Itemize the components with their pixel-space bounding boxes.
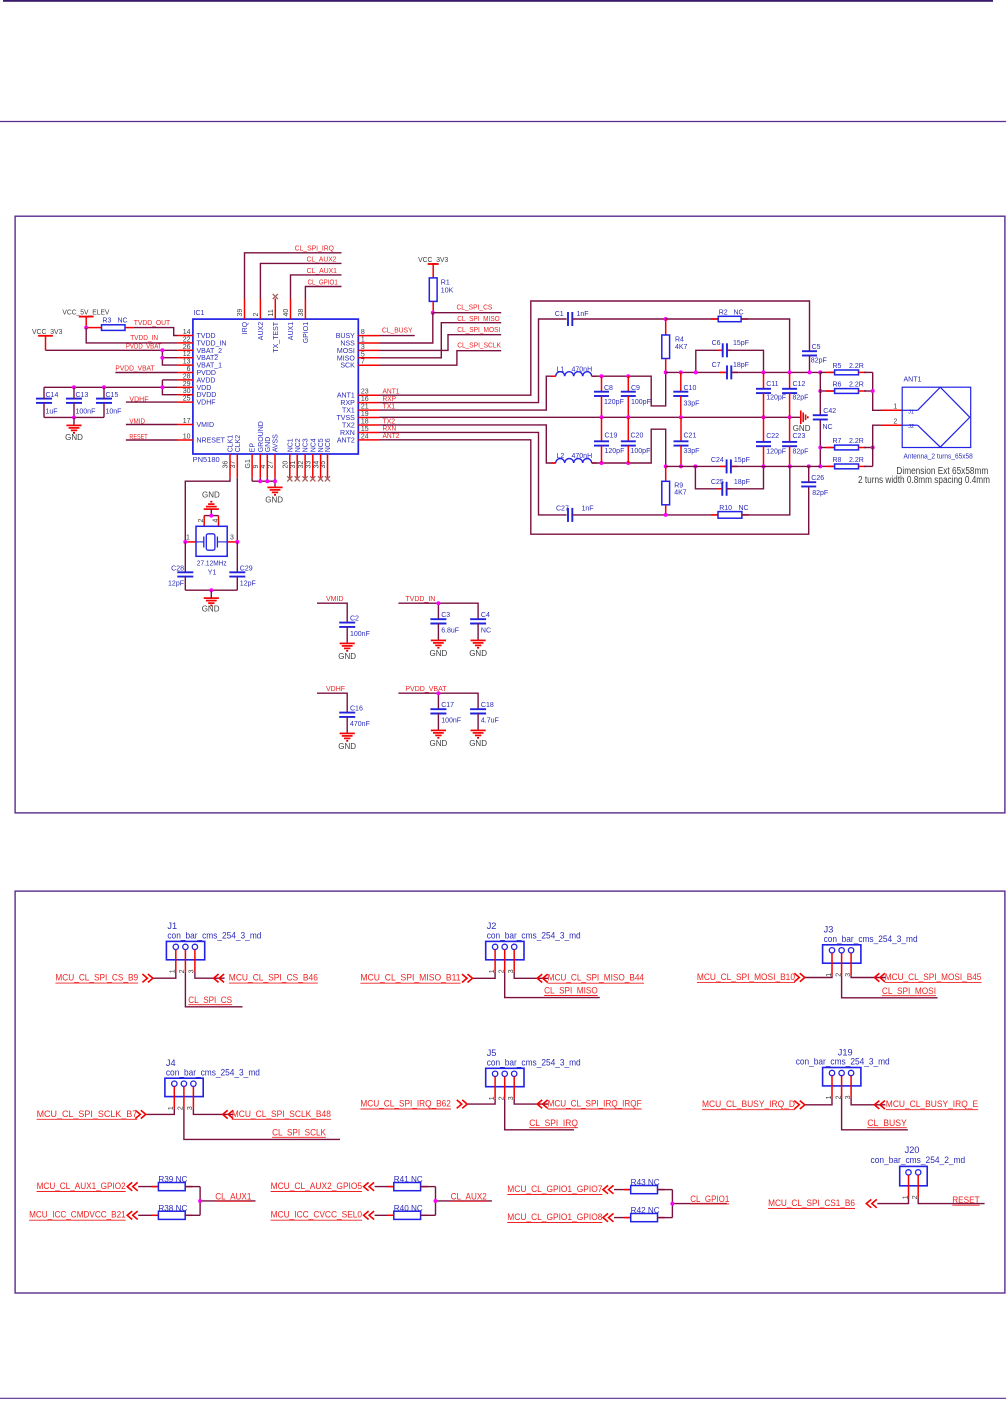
wire CL_AUX2 tie bbox=[436, 1187, 492, 1216]
svg-text:38: 38 bbox=[298, 309, 305, 317]
svg-text:NC: NC bbox=[734, 310, 744, 317]
svg-text:con_bar_cms_254_3_md: con_bar_cms_254_3_md bbox=[166, 1067, 260, 1077]
IC1 right pin stubs bbox=[358, 336, 379, 440]
capacitor C11 bbox=[756, 372, 786, 417]
capacitor C26 bbox=[801, 466, 828, 496]
svg-text:GND: GND bbox=[469, 739, 487, 748]
wire CL_SPI_MISO MISO pin 5 bbox=[380, 323, 502, 358]
svg-text:C12: C12 bbox=[793, 381, 806, 388]
svg-text:MCU_CL_SPI_SCLK_B7: MCU_CL_SPI_SCLK_B7 bbox=[37, 1109, 138, 1119]
no-connect X marks on NC pins bbox=[287, 476, 330, 481]
wire VDHF bbox=[317, 693, 347, 712]
net label MCU_CL_AUX1_GPIO2 bbox=[37, 1181, 126, 1192]
svg-text:MCU_CL_SPI_MISO_B11: MCU_CL_SPI_MISO_B11 bbox=[360, 973, 460, 983]
net label CL_SPI_IRQ bbox=[295, 246, 335, 253]
svg-text:11: 11 bbox=[268, 309, 275, 316]
wire R10 to row B bbox=[742, 466, 790, 515]
svg-text:R3: R3 bbox=[102, 317, 111, 324]
svg-text:Antenna_2 turns_65x58: Antenna_2 turns_65x58 bbox=[904, 454, 973, 461]
connector J1 bbox=[166, 921, 261, 972]
svg-text:AVDD: AVDD bbox=[197, 377, 216, 384]
svg-text:120pF: 120pF bbox=[605, 448, 625, 455]
wire J2 pin 2 / net CL_SPI_MISO bbox=[505, 972, 600, 998]
svg-text:TVDD_OUT: TVDD_OUT bbox=[134, 320, 171, 327]
svg-text:CL_BUSY: CL_BUSY bbox=[867, 1118, 907, 1128]
J2 pin numbers 1 2 3 bbox=[489, 969, 515, 973]
svg-text:2 turns width 0.8mm spacing 0.: 2 turns width 0.8mm spacing 0.4mm bbox=[858, 475, 990, 486]
junction R4 top bbox=[664, 317, 668, 321]
sheet entry arrow right J4 bbox=[223, 1110, 234, 1118]
resistor R5 bbox=[820, 363, 872, 375]
capacitor C4 bbox=[470, 612, 491, 640]
resistor R2 bbox=[666, 310, 748, 322]
resistor R38 bbox=[138, 1204, 200, 1220]
connector J5 bbox=[486, 1048, 581, 1099]
junctions TVSS rail bbox=[600, 415, 792, 419]
IC1 top pin names bbox=[242, 321, 310, 352]
svg-text:4.7uF: 4.7uF bbox=[481, 718, 499, 725]
net label MCU_CL_GPIO1_GPIO8 bbox=[507, 1212, 602, 1223]
ground above crystal bbox=[202, 491, 220, 516]
sheet entry arrow right J19 bbox=[874, 1101, 885, 1109]
sheet entry arrow right J5 bbox=[537, 1100, 548, 1108]
sheet entry arrow left J1 bbox=[142, 974, 153, 982]
svg-text:2.2R: 2.2R bbox=[849, 438, 864, 445]
svg-text:18pF: 18pF bbox=[733, 362, 749, 369]
wire CL_GPIO1 tie bbox=[672, 1190, 727, 1218]
svg-text:TVDD_IN: TVDD_IN bbox=[130, 335, 158, 342]
IC1 top pin stubs bbox=[245, 299, 306, 320]
svg-text:CL_GPIO1: CL_GPIO1 bbox=[690, 1194, 729, 1204]
svg-text:NC: NC bbox=[118, 317, 128, 324]
svg-text:R6: R6 bbox=[833, 381, 842, 388]
capacitor C3 bbox=[430, 612, 459, 640]
crystal pin numbers 2 4 bbox=[198, 519, 219, 523]
svg-text:C18: C18 bbox=[481, 702, 494, 709]
footer rule bbox=[0, 1397, 1006, 1399]
sheet entry arrow left J5 bbox=[457, 1100, 468, 1108]
sheet entry arrow MCU_CL_AUX2_GPIO5 bbox=[364, 1182, 375, 1190]
svg-text:12pF: 12pF bbox=[168, 581, 184, 588]
junction R1 / NSS / CL_SPI_CS bbox=[431, 311, 435, 315]
svg-text:AUX2: AUX2 bbox=[258, 322, 265, 340]
net label CL_SPI_MOSI bbox=[457, 327, 500, 334]
svg-text:VBAT2: VBAT2 bbox=[197, 355, 219, 362]
wire CL_SPI_MOSI MOSI pin 3 bbox=[380, 335, 502, 351]
capacitor C17 bbox=[430, 702, 461, 730]
wire TX2 to L2 bbox=[380, 425, 556, 463]
svg-text:Y1: Y1 bbox=[208, 570, 217, 577]
net label CL_SPI_IRQ bbox=[529, 1118, 578, 1128]
wire CL_AUX1 tie bbox=[200, 1187, 255, 1216]
page top bar bbox=[3, 0, 993, 2]
wire CLK2 to crystal pin 3 bbox=[236, 478, 238, 542]
svg-text:33pF: 33pF bbox=[684, 448, 700, 455]
wire crystal ground rail bbox=[185, 588, 237, 597]
svg-text:32: 32 bbox=[298, 461, 305, 469]
net label MCU_CL_SPI_CS_B9 bbox=[55, 973, 138, 984]
wire J19 pin 2 / net CL_BUSY bbox=[842, 1098, 908, 1130]
junction L2 row bbox=[600, 461, 631, 465]
wire C27 to R10 bbox=[572, 514, 718, 516]
inductor L1 bbox=[556, 367, 597, 377]
svg-text:NC3: NC3 bbox=[303, 438, 310, 452]
svg-text:CL_SPI_MOSI: CL_SPI_MOSI bbox=[882, 986, 936, 996]
svg-text:GND: GND bbox=[65, 433, 83, 442]
svg-text:GND: GND bbox=[338, 742, 356, 751]
crystal pin number 3 bbox=[230, 535, 234, 542]
svg-text:6.8uF: 6.8uF bbox=[441, 628, 459, 635]
wire J2 pin 1 bbox=[473, 972, 496, 979]
resistor R8 bbox=[820, 457, 872, 469]
crystal Y1 bbox=[196, 526, 227, 576]
capacitor C28 bbox=[168, 542, 193, 590]
wire TX1 to L1 bbox=[380, 376, 556, 410]
ground under C2 bbox=[338, 643, 356, 661]
svg-text:MCU_CL_BUSY_IRQ_E: MCU_CL_BUSY_IRQ_E bbox=[886, 1099, 978, 1109]
IC1 bottom pin stubs bbox=[230, 454, 328, 478]
connector J3 bbox=[823, 925, 918, 976]
wire CL_GPIO1 to pin 38 bbox=[305, 287, 341, 299]
svg-text:PVDD_VBAT: PVDD_VBAT bbox=[405, 686, 447, 693]
wire J2 pin 3 bbox=[514, 972, 548, 979]
svg-text:VBAT_1: VBAT_1 bbox=[197, 363, 223, 370]
junctions C42 column bbox=[818, 446, 822, 450]
svg-text:CL_SPI_CS: CL_SPI_CS bbox=[188, 995, 232, 1005]
svg-text:MCU_CL_AUX2_GPIO5: MCU_CL_AUX2_GPIO5 bbox=[271, 1181, 363, 1191]
ground below crystal bbox=[202, 598, 220, 614]
svg-text:MCU_CL_SPI_MISO_B44: MCU_CL_SPI_MISO_B44 bbox=[548, 973, 644, 983]
wire R5 to antenna pin 1 bbox=[873, 372, 903, 410]
svg-text:GND: GND bbox=[265, 437, 272, 453]
wire C42 column bbox=[819, 372, 821, 466]
svg-text:MCU_CL_AUX1_GPIO2: MCU_CL_AUX1_GPIO2 bbox=[37, 1181, 126, 1191]
IC1 right pin names bbox=[336, 333, 356, 444]
svg-text:100nF: 100nF bbox=[350, 631, 370, 638]
sheet entry arrow left J2 bbox=[462, 974, 473, 982]
resistor R3 bbox=[86, 317, 134, 330]
svg-text:100pF: 100pF bbox=[631, 448, 651, 455]
svg-text:MCU_CL_GPIO1_GPIO7: MCU_CL_GPIO1_GPIO7 bbox=[507, 1184, 602, 1194]
wire C1 to R2 node bbox=[572, 318, 665, 320]
J1 pin numbers 1 2 3 bbox=[170, 969, 196, 973]
svg-text:IRQ: IRQ bbox=[242, 321, 249, 334]
svg-text:ANT2: ANT2 bbox=[383, 433, 400, 440]
sheet entry arrow right J2 bbox=[537, 974, 548, 982]
wire VMID to pin 17 bbox=[126, 424, 178, 426]
junctions R6 bbox=[818, 389, 874, 393]
sheet entry arrow MCU_CL_AUX1_GPIO2 bbox=[127, 1182, 138, 1190]
svg-text:4: 4 bbox=[212, 519, 219, 523]
crystal pin number 1 bbox=[186, 535, 190, 542]
svg-text:VMID: VMID bbox=[326, 596, 344, 603]
svg-text:NC4: NC4 bbox=[310, 438, 317, 452]
svg-text:120pF: 120pF bbox=[766, 448, 786, 455]
net label RESET bbox=[952, 1195, 980, 1205]
svg-text:C29: C29 bbox=[240, 565, 253, 572]
svg-text:3: 3 bbox=[230, 535, 234, 542]
wire VDHF to pin 25 bbox=[126, 401, 178, 403]
svg-text:ANT1: ANT1 bbox=[337, 393, 355, 400]
svg-text:TVDD_IN: TVDD_IN bbox=[405, 596, 435, 603]
net label VMID bbox=[326, 596, 344, 603]
svg-text:ANT2: ANT2 bbox=[337, 437, 355, 444]
svg-text:VDHF: VDHF bbox=[197, 400, 216, 407]
net label CL_SPI_CS bbox=[457, 305, 493, 312]
svg-text:CL_SPI_SCLK: CL_SPI_SCLK bbox=[457, 343, 501, 350]
svg-text:37: 37 bbox=[230, 461, 237, 469]
capacitor C13 bbox=[66, 387, 95, 417]
svg-text:C22: C22 bbox=[766, 433, 779, 440]
schematic frame 2 bbox=[15, 891, 1005, 1293]
wire CL_AUX2 to pin 2 bbox=[260, 263, 341, 298]
svg-text:C24: C24 bbox=[711, 457, 724, 464]
IC1 bottom pin numbers bbox=[223, 459, 328, 468]
ground under C17 bbox=[430, 730, 448, 748]
svg-text:VDD: VDD bbox=[197, 385, 212, 392]
svg-text:82pF: 82pF bbox=[812, 490, 828, 497]
net label ANT1 at pin 23 bbox=[383, 389, 400, 396]
wire J3 pin 2 / net CL_SPI_MOSI bbox=[842, 975, 938, 998]
svg-text:VCC_5V_ELEV: VCC_5V_ELEV bbox=[62, 308, 109, 317]
svg-text:18pF: 18pF bbox=[734, 479, 750, 486]
sheet entry arrow MCU_ICC_CMDVCC_B21 bbox=[127, 1211, 138, 1219]
svg-text:MCU_CL_GPIO1_GPIO8: MCU_CL_GPIO1_GPIO8 bbox=[507, 1212, 602, 1222]
connector J20 bbox=[871, 1145, 966, 1198]
net label CL_SPI_MISO bbox=[544, 986, 598, 996]
sheet entry arrow right J3 bbox=[874, 973, 885, 981]
net label TVDD_IN bbox=[405, 596, 435, 603]
svg-text:R7: R7 bbox=[833, 438, 842, 445]
svg-text:TX1: TX1 bbox=[342, 408, 355, 415]
wire PVDD_VBAT to pin 26 bbox=[46, 349, 178, 351]
wire J19 pin 3 bbox=[851, 1098, 885, 1105]
net label TX1 at pin 21 bbox=[383, 403, 396, 410]
J19 pin numbers 1 2 3 bbox=[826, 1095, 852, 1099]
net label CL_AUX1 bbox=[215, 1191, 251, 1201]
crystal pin stubs bbox=[185, 541, 237, 543]
resistor R43 bbox=[614, 1178, 672, 1194]
svg-text:GND: GND bbox=[202, 491, 220, 500]
svg-text:C4: C4 bbox=[481, 612, 490, 619]
IC1 left pin names bbox=[197, 333, 227, 445]
svg-text:NC1: NC1 bbox=[287, 438, 294, 452]
svg-text:GND: GND bbox=[793, 424, 811, 433]
wire ANT1 outer loop bbox=[380, 301, 810, 395]
net label MCU_CL_AUX2_GPIO5 bbox=[271, 1181, 363, 1192]
svg-text:GND: GND bbox=[430, 739, 448, 748]
svg-text:C28: C28 bbox=[171, 565, 184, 572]
svg-text:GND: GND bbox=[430, 649, 448, 658]
svg-text:82pF: 82pF bbox=[811, 357, 827, 364]
wire TVDD_OUT to pin 14 bbox=[134, 328, 178, 336]
wire TVDD_IN bbox=[398, 601, 478, 619]
svg-text:VMID: VMID bbox=[197, 422, 215, 429]
svg-text:MOSI: MOSI bbox=[337, 348, 355, 355]
svg-text:1: 1 bbox=[893, 404, 897, 411]
wire J4 pin 3 bbox=[193, 1109, 233, 1115]
wire row A bbox=[666, 371, 821, 373]
wire J19 pin 1 bbox=[805, 1098, 832, 1105]
svg-text:MCU_CL_SPI_CS_B9: MCU_CL_SPI_CS_B9 bbox=[55, 973, 138, 983]
power flag VCC_5V_ELEV bbox=[62, 308, 109, 328]
net label MCU_ICC_CVCC_SEL0 bbox=[271, 1210, 363, 1221]
svg-text:MCU_CL_SPI_IRQ_B62: MCU_CL_SPI_IRQ_B62 bbox=[360, 1099, 451, 1109]
svg-text:10K: 10K bbox=[441, 288, 454, 295]
svg-text:CL_SPI_IRQ: CL_SPI_IRQ bbox=[529, 1118, 578, 1128]
sheet entry arrow right J1 bbox=[214, 974, 225, 982]
net label TVDD_OUT bbox=[134, 320, 171, 327]
svg-text:AUX1: AUX1 bbox=[288, 322, 295, 340]
wire J5 pin 1 bbox=[467, 1099, 495, 1104]
svg-text:1nF: 1nF bbox=[577, 311, 589, 318]
svg-text:MCU_ICC_CVCC_SEL0: MCU_ICC_CVCC_SEL0 bbox=[271, 1210, 363, 1220]
svg-text:MCU_CL_SPI_MOSI_B45: MCU_CL_SPI_MOSI_B45 bbox=[885, 972, 982, 982]
svg-text:VBAT_2: VBAT_2 bbox=[197, 348, 223, 355]
wire CL_AUX1 to pin 40 bbox=[291, 275, 342, 299]
wire J4 pin 1 bbox=[146, 1109, 175, 1115]
svg-text:39: 39 bbox=[237, 309, 244, 317]
antenna dimension note bbox=[858, 466, 990, 486]
wire AVDD VDD DVDD rail bbox=[44, 380, 178, 395]
svg-text:NC: NC bbox=[823, 424, 833, 431]
ground under C13 bbox=[65, 425, 83, 442]
svg-text:9: 9 bbox=[253, 465, 260, 469]
capacitor C9 bbox=[621, 376, 651, 417]
net label CL_SPI_SCLK bbox=[457, 343, 501, 350]
capacitor C22 bbox=[756, 417, 786, 466]
svg-text:TX2: TX2 bbox=[342, 423, 355, 430]
no-connect X on TX_TEST pin 11 bbox=[273, 294, 278, 299]
svg-text:TX_TEST: TX_TEST bbox=[273, 321, 280, 352]
junction CL_GPIO1 bbox=[670, 1202, 674, 1206]
svg-text:MCU_CL_SPI_CS_B46: MCU_CL_SPI_CS_B46 bbox=[229, 973, 318, 983]
svg-text:82pF: 82pF bbox=[793, 395, 809, 402]
J3 pin numbers 1 2 3 bbox=[826, 973, 852, 977]
svg-text:100nF: 100nF bbox=[441, 718, 461, 725]
svg-text:120pF: 120pF bbox=[604, 399, 624, 406]
svg-text:VDHF: VDHF bbox=[326, 686, 345, 693]
capacitor C27 bbox=[556, 506, 594, 522]
IC IC1 PN5180 body bbox=[193, 310, 359, 464]
svg-text:ANT1: ANT1 bbox=[904, 377, 922, 384]
wire J1 pin 2 / net CL_SPI_CS bbox=[185, 972, 242, 1007]
wire R8 to antenna pin 2 bbox=[873, 425, 903, 466]
svg-text:R2: R2 bbox=[719, 310, 728, 317]
J5 pin numbers 1 2 3 bbox=[489, 1096, 515, 1100]
svg-text:NC: NC bbox=[481, 628, 491, 635]
svg-text:VCC_3V3: VCC_3V3 bbox=[32, 327, 62, 336]
resistor R4 bbox=[662, 319, 688, 372]
wire CL_BUSY pin 8 bbox=[380, 335, 415, 337]
junction row B bbox=[664, 464, 823, 468]
svg-text:SCK: SCK bbox=[340, 363, 355, 370]
net label MCU_CL_SPI_SCLK_B7 bbox=[37, 1109, 138, 1120]
resistor R7 bbox=[820, 438, 872, 450]
wire RXP to C1 bbox=[380, 319, 567, 403]
svg-text:R4: R4 bbox=[675, 336, 684, 343]
svg-text:con_bar_cms_254_3_md: con_bar_cms_254_3_md bbox=[796, 1057, 890, 1067]
net label MCU_CL_SPI_MISO_B11 bbox=[360, 973, 460, 984]
net label VMID bbox=[129, 419, 145, 426]
svg-text:4K7: 4K7 bbox=[675, 344, 688, 351]
svg-text:470nF: 470nF bbox=[350, 721, 370, 728]
svg-text:1nF: 1nF bbox=[582, 506, 594, 513]
svg-text:100pF: 100pF bbox=[631, 399, 651, 406]
junction CL_AUX1 bbox=[198, 1199, 202, 1203]
net label MCU_CL_SPI_SCLK_B48 bbox=[232, 1109, 331, 1120]
svg-text:R1: R1 bbox=[441, 280, 450, 287]
svg-text:VCC_3V3: VCC_3V3 bbox=[418, 255, 448, 264]
svg-text:ANT1: ANT1 bbox=[383, 389, 400, 396]
J4 pin numbers 1 2 3 bbox=[168, 1106, 194, 1110]
resistor R6 bbox=[820, 381, 872, 393]
svg-text:CL_AUX2: CL_AUX2 bbox=[451, 1191, 487, 1201]
svg-text:C9: C9 bbox=[631, 385, 640, 392]
svg-text:33: 33 bbox=[306, 461, 313, 469]
capacitor C19 bbox=[594, 417, 624, 463]
ground under C3 bbox=[430, 640, 448, 658]
wire row B bbox=[666, 465, 821, 467]
wire ANT2 outer loop bbox=[380, 440, 809, 534]
junction row A left bbox=[664, 370, 668, 374]
net label CL_BUSY bbox=[867, 1118, 907, 1128]
svg-text:NSS: NSS bbox=[340, 341, 355, 348]
svg-text:C20: C20 bbox=[631, 433, 644, 440]
net label CL_GPIO1 bbox=[308, 279, 338, 286]
net label TX2 at pin 18 bbox=[383, 418, 396, 425]
IC1 left pin stubs bbox=[178, 336, 193, 441]
net label MCU_ICC_CMDVCC_B21 bbox=[29, 1210, 126, 1221]
svg-text:MCU_ICC_CMDVCC_B21: MCU_ICC_CMDVCC_B21 bbox=[29, 1210, 126, 1220]
wire J5 pin 2 / net CL_SPI_IRQ bbox=[505, 1099, 574, 1130]
svg-text:15pF: 15pF bbox=[734, 457, 750, 464]
IC1 top pin numbers bbox=[237, 309, 305, 317]
ground under C18 bbox=[469, 730, 487, 748]
capacitor C23 bbox=[782, 417, 808, 466]
svg-text:27: 27 bbox=[268, 461, 275, 469]
net label VDHF bbox=[129, 396, 148, 403]
svg-text:15pF: 15pF bbox=[733, 340, 749, 347]
capacitor C5 bbox=[802, 344, 827, 373]
svg-text:GPIO1: GPIO1 bbox=[303, 322, 310, 344]
svg-text:33pF: 33pF bbox=[684, 401, 700, 408]
svg-text:MCU_CL_BUSY_IRQ_D: MCU_CL_BUSY_IRQ_D bbox=[702, 1099, 795, 1109]
wire L2 row and jog to row B bbox=[592, 429, 666, 466]
svg-text:CL_SPI_MISO: CL_SPI_MISO bbox=[544, 986, 598, 996]
net label CL_SPI_MISO bbox=[457, 316, 500, 323]
wire CL_SPI_IRQ to pin 39 bbox=[245, 253, 342, 299]
IC1 bottom pin names bbox=[228, 421, 333, 452]
svg-text:82pF: 82pF bbox=[793, 448, 809, 455]
ground under C4 bbox=[469, 640, 487, 658]
svg-text:CL_BUSY: CL_BUSY bbox=[382, 328, 413, 335]
capacitor C18 bbox=[470, 702, 499, 730]
wire RESET to pin 10 bbox=[126, 439, 178, 441]
J20 pin numbers 1 2 bbox=[902, 1195, 919, 1199]
svg-text:RXP: RXP bbox=[340, 400, 355, 407]
svg-text:C6: C6 bbox=[712, 340, 721, 347]
ground at TVSS rail end bbox=[793, 411, 811, 433]
svg-text:PVDD_VBAT: PVDD_VBAT bbox=[115, 365, 155, 372]
net label MCU_CL_SPI_MISO_B44 bbox=[548, 973, 644, 984]
power flag VCC_3V3 at R1 bbox=[418, 255, 448, 278]
svg-text:40: 40 bbox=[283, 309, 290, 317]
svg-text:CL_AUX1: CL_AUX1 bbox=[215, 1191, 251, 1201]
svg-text:GND: GND bbox=[338, 652, 356, 661]
wire J4 pin 2 / net CL_SPI_SCLK bbox=[184, 1109, 340, 1140]
wire VMID bbox=[317, 603, 347, 622]
